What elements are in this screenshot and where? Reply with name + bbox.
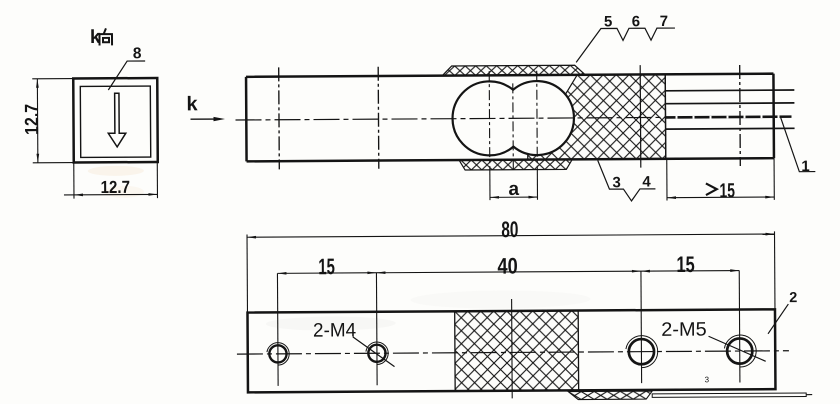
- svg-text:80: 80: [501, 217, 518, 242]
- dimension a: [490, 167, 538, 200]
- svg-text:12.7: 12.7: [22, 104, 43, 135]
- labels 3 4 with zigzag leader: [598, 160, 656, 201]
- svg-text:12.7: 12.7: [101, 177, 130, 197]
- svg-text:3: 3: [705, 375, 710, 384]
- svg-text:k: k: [186, 93, 198, 115]
- label 8 leader: [108, 61, 145, 90]
- k arrow: [191, 118, 218, 120]
- center line (horizontal, dash-dot): [236, 117, 790, 120]
- hole 2 (M4): [368, 345, 385, 362]
- hatch: main potting block: [527, 74, 666, 159]
- cable sleeve hatch strip (below plan): [568, 391, 652, 400]
- svg-text:1: 1: [801, 158, 809, 175]
- svg-text:3: 3: [612, 174, 620, 191]
- right bore center line: [536, 71, 539, 167]
- svg-text:40: 40: [497, 254, 517, 279]
- dimension line 15/40/15: [277, 271, 739, 386]
- beam outline: [246, 74, 774, 162]
- hole 4 (M5): [727, 338, 752, 363]
- inner square: [80, 86, 150, 157]
- svg-text:15: 15: [676, 252, 694, 277]
- cable: [652, 393, 806, 397]
- middle vertical line: [511, 299, 514, 398]
- block right edge: [664, 74, 667, 158]
- svg-text:2: 2: [789, 290, 797, 306]
- svg-text:8: 8: [133, 45, 142, 62]
- dimension 80: [247, 231, 775, 312]
- hollow arrow (load direction): [108, 93, 126, 147]
- hatch: bottom strip: [459, 159, 572, 170]
- hatch square: [455, 311, 579, 392]
- hatch: top strip: [442, 65, 585, 75]
- dimension 12.7 (left, vertical): [32, 79, 74, 163]
- dimension >15: [667, 158, 775, 200]
- dimension 12.7 (bottom): [64, 162, 158, 199]
- labels 5 6 7 with zigzag leader: [576, 28, 675, 62]
- svg-text:15: 15: [318, 254, 335, 279]
- svg-text:a: a: [508, 179, 519, 200]
- hole 1 center line (vertical dash-dot): [278, 67, 281, 169]
- outer square: [73, 78, 158, 163]
- label 1 leader: [781, 117, 816, 172]
- hole 3 (M5): [629, 339, 654, 364]
- left bore center line: [488, 71, 491, 167]
- svg-text:5: 5: [604, 13, 612, 30]
- svg-text:15: 15: [719, 179, 735, 202]
- svg-text:6: 6: [632, 13, 640, 30]
- center line: [237, 351, 789, 354]
- hole 3 center line (vertical solid): [639, 65, 642, 167]
- hole 4 center line (vertical dash-dot): [739, 65, 742, 166]
- faint scan smudges: [88, 166, 144, 176]
- double-bore peanut outline: [452, 81, 574, 156]
- plan outline: [247, 309, 775, 392]
- hole 2 center line (vertical dash-dot): [377, 67, 380, 169]
- hole 1 (M4): [269, 345, 286, 362]
- mid bore center line: [512, 83, 515, 172]
- wires: [665, 90, 794, 129]
- svg-text:2-M5: 2-M5: [661, 319, 707, 341]
- svg-text:4: 4: [642, 173, 651, 190]
- svg-text:7: 7: [660, 13, 668, 30]
- svg-text:2-M4: 2-M4: [313, 319, 356, 341]
